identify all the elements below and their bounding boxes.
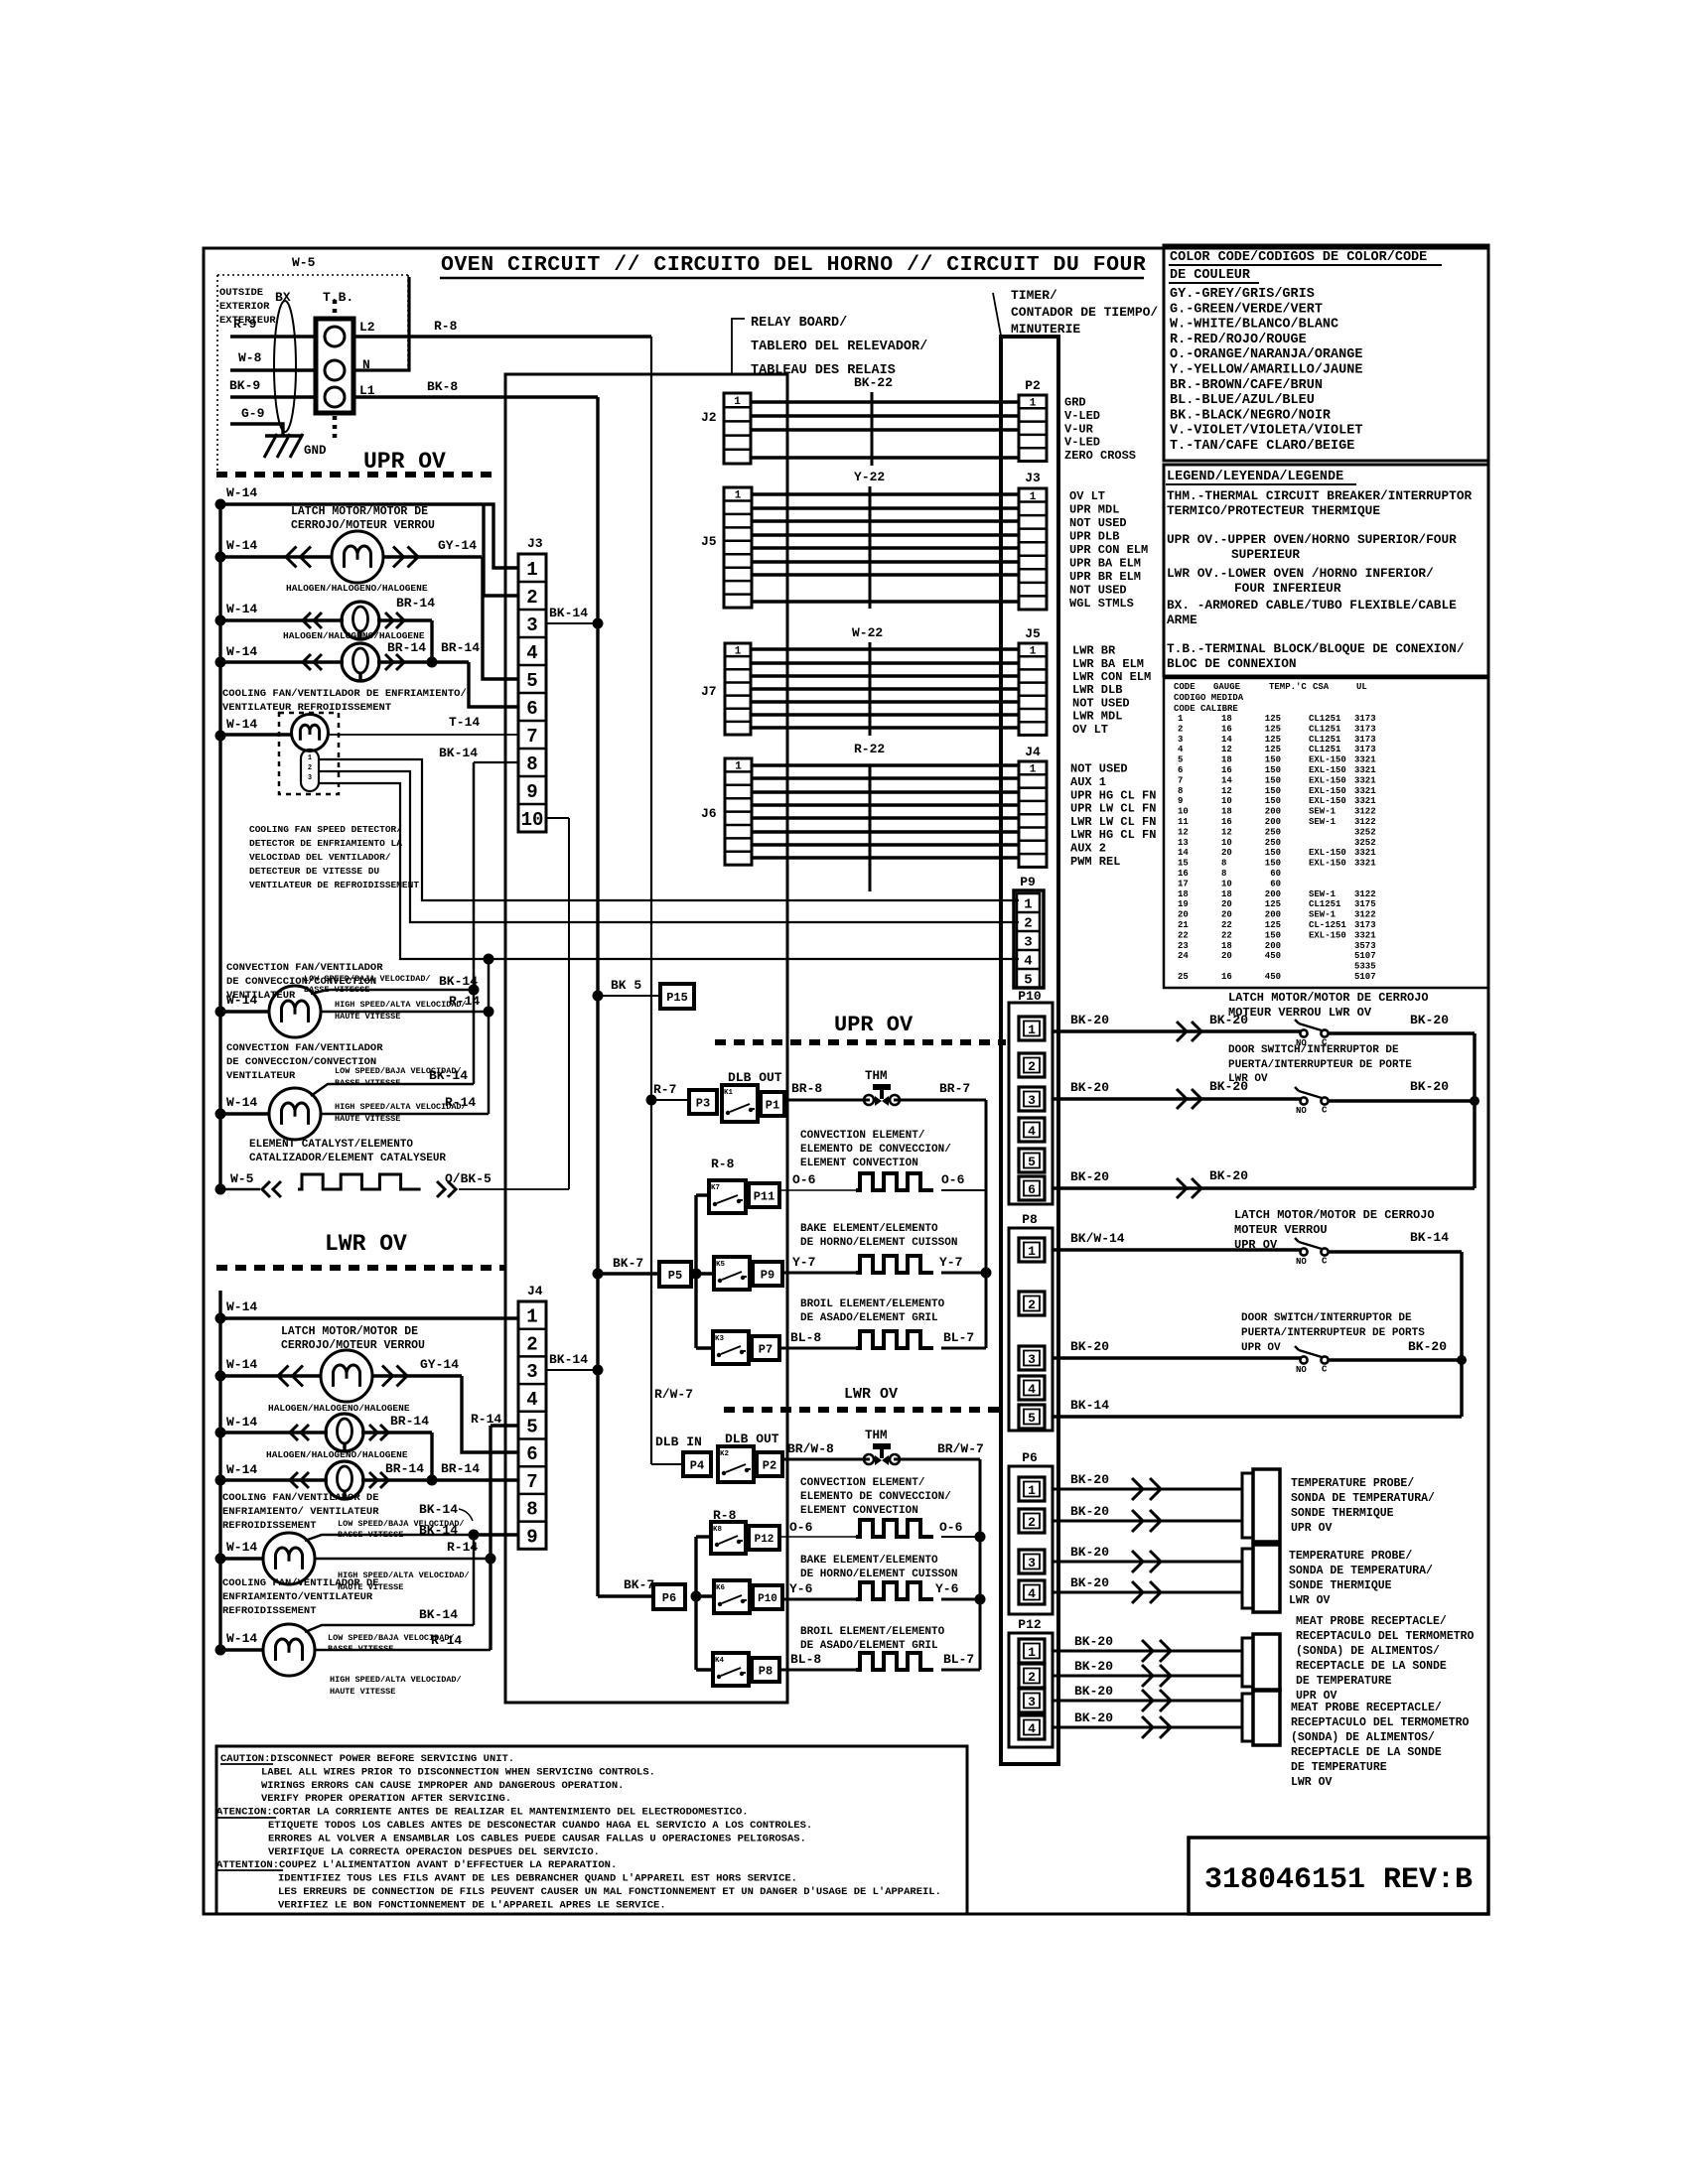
- connector P6 relay: [653, 1584, 685, 1609]
- connector P7: [752, 1336, 779, 1360]
- svg-text:R-7: R-7: [653, 1082, 676, 1097]
- svg-text:RECEPTACULO DEL TERMOMETRO: RECEPTACULO DEL TERMOMETRO: [1291, 1716, 1470, 1729]
- svg-text:CL1251: CL1251: [1309, 899, 1341, 909]
- svg-text:2: 2: [526, 1333, 537, 1355]
- svg-text:8: 8: [1221, 869, 1226, 879]
- svg-text:9: 9: [526, 781, 537, 803]
- svg-text:BK-14: BK-14: [1410, 1230, 1449, 1245]
- svg-text:BL-7: BL-7: [943, 1330, 974, 1345]
- svg-text:UL: UL: [1356, 682, 1367, 692]
- svg-text:R/W-7: R/W-7: [654, 1387, 693, 1402]
- svg-text:18: 18: [1221, 889, 1232, 899]
- svg-text:3321: 3321: [1354, 848, 1376, 858]
- connector P4: [683, 1452, 711, 1476]
- halogen lamp LWR 1: [326, 1414, 363, 1451]
- svg-text:W-14: W-14: [226, 1631, 257, 1646]
- svg-text:CODE: CODE: [1174, 682, 1196, 692]
- svg-text:O/BK-5: O/BK-5: [445, 1171, 492, 1186]
- svg-text:Y-22: Y-22: [854, 470, 885, 484]
- svg-text:VERIFIEZ LE BON FONCTIONNEMENT: VERIFIEZ LE BON FONCTIONNEMENT DE L'APPA…: [278, 1899, 666, 1911]
- caution box: [216, 1746, 967, 1914]
- svg-text:NOT USED: NOT USED: [1069, 584, 1127, 598]
- svg-text:SEW-1: SEW-1: [1309, 910, 1336, 920]
- svg-text:BROIL ELEMENT/ELEMENTO: BROIL ELEMENT/ELEMENTO: [800, 1298, 945, 1310]
- node relay feed vertical LWR x=701: [694, 1537, 697, 1670]
- svg-text:C: C: [1322, 1106, 1328, 1116]
- svg-text:4: 4: [1028, 1721, 1036, 1736]
- svg-text:CL1251: CL1251: [1309, 735, 1341, 745]
- svg-text:O-6: O-6: [789, 1520, 813, 1535]
- svg-text:GAUGE: GAUGE: [1213, 682, 1241, 692]
- svg-text:4: 4: [1028, 1586, 1036, 1601]
- svg-text:RECEPTACULO DEL TERMOMETRO: RECEPTACULO DEL TERMOMETRO: [1296, 1630, 1475, 1643]
- svg-text:BK-20: BK-20: [1209, 1013, 1248, 1027]
- svg-text:BR/W-8: BR/W-8: [787, 1441, 834, 1456]
- svg-text:12: 12: [1221, 786, 1232, 796]
- cooling fan motor LWR 1: [263, 1533, 315, 1584]
- svg-text:W-5: W-5: [292, 255, 316, 270]
- svg-text:12: 12: [1221, 827, 1232, 837]
- svg-text:R-14: R-14: [449, 994, 480, 1009]
- svg-text:8: 8: [526, 753, 537, 775]
- door switch LWR NO C: [1300, 1097, 1307, 1104]
- svg-text:P10: P10: [758, 1593, 777, 1605]
- svg-text:150: 150: [1265, 775, 1281, 785]
- svg-text:4: 4: [1028, 1124, 1036, 1139]
- svg-text:VELOCIDAD DEL VENTILADOR/: VELOCIDAD DEL VENTILADOR/: [249, 852, 391, 863]
- svg-text:RECEPTACLE DE LA SONDE: RECEPTACLE DE LA SONDE: [1296, 1660, 1447, 1673]
- broil element LWR: [856, 1653, 933, 1670]
- svg-text:K1: K1: [724, 1089, 734, 1097]
- svg-text:LABEL ALL WIRES PRIOR TO DISCO: LABEL ALL WIRES PRIOR TO DISCONNECTION W…: [261, 1766, 655, 1778]
- svg-text:NOT USED: NOT USED: [1069, 516, 1127, 530]
- bundle tick BK-22: [871, 392, 874, 466]
- fan speed detector capsule: [301, 750, 319, 791]
- svg-text:1: 1: [1028, 1483, 1036, 1498]
- svg-text:200: 200: [1265, 941, 1281, 951]
- svg-text:GY-14: GY-14: [420, 1357, 459, 1372]
- svg-text:3321: 3321: [1354, 765, 1376, 775]
- svg-text:BK-20: BK-20: [1070, 1504, 1109, 1519]
- svg-text:3321: 3321: [1354, 930, 1376, 940]
- svg-text:6: 6: [526, 1443, 537, 1465]
- svg-text:SONDE THERMIQUE: SONDE THERMIQUE: [1291, 1507, 1394, 1520]
- svg-text:250: 250: [1265, 827, 1281, 837]
- svg-text:9: 9: [526, 1526, 537, 1548]
- svg-text:UPR OV: UPR OV: [1291, 1522, 1333, 1535]
- svg-text:BK-14: BK-14: [549, 606, 588, 620]
- svg-text:Y-7: Y-7: [792, 1255, 815, 1270]
- svg-text:1: 1: [1030, 398, 1037, 410]
- svg-text:4: 4: [1178, 745, 1184, 754]
- svg-text:EXL-150: EXL-150: [1309, 859, 1346, 869]
- latch motor switch LWR NO C: [1300, 1029, 1307, 1036]
- svg-text:K4: K4: [715, 1657, 725, 1665]
- svg-text:LES ERREURS DE CONNECTION DE F: LES ERREURS DE CONNECTION DE FILS PEUVEN…: [278, 1886, 941, 1898]
- svg-text:BR-14: BR-14: [441, 640, 480, 655]
- svg-text:1: 1: [735, 646, 742, 658]
- svg-text:W-5: W-5: [230, 1171, 254, 1186]
- svg-text:23: 23: [1178, 941, 1189, 951]
- svg-text:SONDE THERMIQUE: SONDE THERMIQUE: [1289, 1579, 1392, 1592]
- svg-text:COOLING FAN/VENTILADOR DE: COOLING FAN/VENTILADOR DE: [222, 1577, 379, 1589]
- svg-text:T.B.: T.B.: [323, 290, 353, 305]
- svg-text:BK-9: BK-9: [229, 378, 260, 393]
- svg-text:HAUTE VITESSE: HAUTE VITESSE: [335, 1114, 400, 1124]
- svg-text:T-14: T-14: [449, 715, 480, 730]
- svg-text:W-14: W-14: [226, 1357, 257, 1372]
- svg-text:BR-8: BR-8: [791, 1081, 822, 1096]
- svg-text:EXL-150: EXL-150: [1309, 786, 1346, 796]
- svg-text:BK-20: BK-20: [1410, 1013, 1449, 1027]
- svg-text:CL1251: CL1251: [1309, 745, 1341, 754]
- svg-text:18: 18: [1221, 807, 1232, 817]
- relay K4: [713, 1653, 749, 1686]
- svg-text:BK-20: BK-20: [1074, 1710, 1113, 1725]
- svg-text:1: 1: [308, 754, 312, 762]
- svg-text:BK-14: BK-14: [429, 1068, 468, 1083]
- svg-text:3: 3: [526, 614, 537, 636]
- svg-text:UPR DLB: UPR DLB: [1069, 529, 1119, 543]
- svg-text:V-LED: V-LED: [1064, 409, 1100, 423]
- svg-text:P2: P2: [763, 1458, 776, 1472]
- svg-text:16: 16: [1221, 765, 1232, 775]
- svg-text:20: 20: [1221, 899, 1232, 909]
- svg-text:5: 5: [1024, 973, 1032, 989]
- connector P10 relay: [753, 1585, 782, 1609]
- svg-text:BASSE VITESSE: BASSE VITESSE: [338, 1530, 403, 1540]
- door switch UPR NO C: [1300, 1356, 1307, 1363]
- svg-text:UPR BR ELM: UPR BR ELM: [1069, 570, 1141, 584]
- svg-text:K2: K2: [720, 1450, 730, 1458]
- svg-text:DE COULEUR: DE COULEUR: [1170, 268, 1251, 283]
- node vertical R-14 x=492: [488, 959, 491, 1114]
- svg-text:1: 1: [1030, 646, 1037, 658]
- svg-text:BK-20: BK-20: [1070, 1575, 1109, 1590]
- svg-text:WIRINGS ERRORS CAN CAUSE IMPRO: WIRINGS ERRORS CAN CAUSE IMPROPER AND DA…: [261, 1780, 624, 1792]
- svg-text:DOOR SWITCH/INTERRUPTOR DE: DOOR SWITCH/INTERRUPTOR DE: [1228, 1044, 1399, 1056]
- svg-text:EXL-150: EXL-150: [1309, 796, 1346, 806]
- svg-text:GRD: GRD: [1064, 396, 1086, 410]
- svg-text:COOLING FAN SPEED DETECTOR/: COOLING FAN SPEED DETECTOR/: [249, 824, 402, 835]
- svg-text:BX. -ARMORED CABLE/TUBO FLEXIB: BX. -ARMORED CABLE/TUBO FLEXIBLE/CABLE: [1167, 598, 1457, 613]
- svg-text:RECEPTACLE DE LA SONDE: RECEPTACLE DE LA SONDE: [1291, 1746, 1442, 1759]
- wire fan detector pin1 to P9-1: [319, 759, 1019, 900]
- svg-text:CSA: CSA: [1313, 682, 1330, 692]
- svg-text:3175: 3175: [1354, 899, 1376, 909]
- svg-text:GY.-GREY/GRIS/GRIS: GY.-GREY/GRIS/GRIS: [1170, 287, 1315, 302]
- svg-text:LWR OV: LWR OV: [1291, 1776, 1333, 1789]
- svg-text:125: 125: [1265, 899, 1281, 909]
- svg-text:COOLING FAN/VENTILADOR DE ENFR: COOLING FAN/VENTILADOR DE ENFRIAMIENTO/: [222, 688, 467, 700]
- svg-text:C: C: [1322, 1365, 1328, 1375]
- svg-text:LWR OV: LWR OV: [844, 1386, 898, 1403]
- svg-text:W-14: W-14: [226, 538, 257, 553]
- svg-text:22: 22: [1178, 930, 1189, 940]
- svg-text:2: 2: [1028, 1670, 1036, 1685]
- svg-text:HALOGEN/HALOGENO/HALOGENE: HALOGEN/HALOGENO/HALOGENE: [286, 583, 428, 594]
- svg-text:DE TEMPERATURE: DE TEMPERATURE: [1296, 1675, 1392, 1688]
- svg-text:T.B.-TERMINAL BLOCK/BLOQUE DE: T.B.-TERMINAL BLOCK/BLOQUE DE CONEXION/: [1167, 641, 1465, 656]
- connector P15: [660, 984, 694, 1009]
- svg-text:3122: 3122: [1354, 910, 1376, 920]
- svg-text:BAKE ELEMENT/ELEMENTO: BAKE ELEMENT/ELEMENTO: [800, 1223, 938, 1235]
- svg-text:200: 200: [1265, 817, 1281, 827]
- svg-text:LOW SPEED/BAJA VELOCIDAD/: LOW SPEED/BAJA VELOCIDAD/: [338, 1519, 465, 1529]
- svg-text:18: 18: [1221, 714, 1232, 724]
- halogen lamp LWR 2: [326, 1461, 363, 1499]
- svg-text:BK-20: BK-20: [1209, 1168, 1248, 1183]
- connector P1: [761, 1092, 784, 1116]
- svg-text:TEMPERATURE PROBE/: TEMPERATURE PROBE/: [1289, 1550, 1412, 1563]
- svg-text:BK-20: BK-20: [1410, 1079, 1449, 1094]
- svg-text:13: 13: [1178, 838, 1189, 848]
- svg-text:14: 14: [1221, 735, 1232, 745]
- svg-text:O-6: O-6: [941, 1172, 965, 1187]
- svg-text:CONVECTION ELEMENT/: CONVECTION ELEMENT/: [800, 1130, 925, 1142]
- svg-text:BK-20: BK-20: [1209, 1079, 1248, 1094]
- svg-text:BK/W-14: BK/W-14: [1070, 1231, 1125, 1246]
- latch motor UPR: [332, 531, 383, 583]
- svg-text:ELEMENT CONVECTION: ELEMENT CONVECTION: [800, 1158, 918, 1169]
- svg-text:V-LED: V-LED: [1064, 436, 1100, 450]
- svg-text:LATCH MOTOR/MOTOR DE CERROJO: LATCH MOTOR/MOTOR DE CERROJO: [1234, 1208, 1435, 1222]
- svg-text:L2: L2: [359, 320, 375, 335]
- svg-text:P8: P8: [1022, 1212, 1038, 1227]
- svg-text:UPR OV: UPR OV: [834, 1013, 914, 1037]
- svg-text:BLOC DE CONNEXION: BLOC DE CONNEXION: [1167, 656, 1297, 671]
- svg-text:BK-14: BK-14: [549, 1352, 588, 1367]
- svg-text:ERRORES AL VOLVER A ENSAMBLAR: ERRORES AL VOLVER A ENSAMBLAR LOS CABLES…: [268, 1833, 806, 1844]
- svg-text:R-8: R-8: [434, 319, 458, 334]
- svg-text:TEMP.'C: TEMP.'C: [1269, 682, 1307, 692]
- element catalyst heating element: [298, 1174, 421, 1189]
- svg-text:O-6: O-6: [939, 1520, 963, 1535]
- svg-text:VENTILATEUR DE REFROIDISSEMENT: VENTILATEUR DE REFROIDISSEMENT: [249, 880, 419, 890]
- svg-text:BK-20: BK-20: [1070, 1013, 1109, 1027]
- svg-text:BR-14: BR-14: [390, 1414, 429, 1429]
- svg-text:BR-7: BR-7: [939, 1081, 970, 1096]
- svg-text:J4: J4: [1025, 745, 1041, 759]
- svg-text:LWR HG CL FN: LWR HG CL FN: [1070, 828, 1156, 842]
- svg-text:ENFRIAMIENTO/VENTILATEUR: ENFRIAMIENTO/VENTILATEUR: [222, 1591, 373, 1603]
- svg-text:5: 5: [1178, 755, 1183, 765]
- latch motor switch UPR NO C: [1300, 1248, 1307, 1255]
- svg-text:OVEN CIRCUIT // CIRCUITO DEL H: OVEN CIRCUIT // CIRCUITO DEL HORNO // CI…: [441, 253, 1146, 277]
- armored cable BX: [274, 301, 296, 432]
- svg-text:OV LT: OV LT: [1072, 723, 1108, 737]
- svg-text:20: 20: [1221, 848, 1232, 858]
- svg-text:NO: NO: [1296, 1365, 1307, 1375]
- ground GND symbol: [265, 434, 302, 438]
- svg-text:3: 3: [1028, 1695, 1036, 1709]
- svg-text:BK-20: BK-20: [1070, 1472, 1109, 1487]
- timer label: [993, 293, 1001, 336]
- svg-text:BR-14: BR-14: [441, 1461, 480, 1476]
- connector P2 relay: [757, 1452, 782, 1476]
- svg-text:P5: P5: [668, 1269, 682, 1283]
- svg-text:BROIL ELEMENT/ELEMENTO: BROIL ELEMENT/ELEMENTO: [800, 1626, 945, 1638]
- bake element UPR: [856, 1256, 933, 1273]
- bundle tick R-22: [869, 764, 872, 891]
- svg-text:7: 7: [1178, 775, 1183, 785]
- svg-text:AUX 1: AUX 1: [1070, 775, 1106, 789]
- svg-text:LWR CON ELM: LWR CON ELM: [1072, 670, 1151, 684]
- svg-text:LWR OV.-LOWER OVEN /HORNO INFE: LWR OV.-LOWER OVEN /HORNO INFERIOR/: [1167, 566, 1434, 581]
- svg-text:BR.-BROWN/CAFE/BRUN: BR.-BROWN/CAFE/BRUN: [1170, 378, 1323, 393]
- svg-text:T.-TAN/CAFE CLARO/BEIGE: T.-TAN/CAFE CLARO/BEIGE: [1170, 439, 1354, 454]
- svg-text:150: 150: [1265, 765, 1281, 775]
- convection fan motor UPR 2: [269, 1088, 321, 1140]
- svg-text:(SONDA) DE ALIMENTOS/: (SONDA) DE ALIMENTOS/: [1296, 1645, 1440, 1658]
- svg-text:3: 3: [1028, 1556, 1036, 1570]
- svg-text:R-14: R-14: [431, 1633, 462, 1648]
- svg-text:200: 200: [1265, 889, 1281, 899]
- svg-text:2: 2: [308, 764, 312, 772]
- svg-text:R.-RED/ROJO/ROUGE: R.-RED/ROJO/ROUGE: [1170, 333, 1307, 347]
- relay board label: [732, 319, 745, 373]
- svg-text:NOT USED: NOT USED: [1072, 696, 1130, 710]
- svg-text:W-14: W-14: [226, 644, 257, 659]
- convection element UPR: [856, 1173, 933, 1190]
- svg-text:O.-ORANGE/NARANJA/ORANGE: O.-ORANGE/NARANJA/ORANGE: [1170, 347, 1362, 362]
- svg-text:EXTERIOR: EXTERIOR: [219, 301, 270, 313]
- svg-text:9: 9: [1178, 796, 1183, 806]
- LWR OV middle dashed line: [724, 1407, 1006, 1413]
- svg-text:4: 4: [526, 642, 537, 664]
- svg-text:J7: J7: [701, 684, 717, 699]
- svg-text:CODE CALIBRE: CODE CALIBRE: [1174, 704, 1238, 714]
- svg-text:R-22: R-22: [854, 742, 885, 756]
- wire W-14 bus LWR: [218, 1291, 221, 1650]
- svg-text:BK-7: BK-7: [624, 1577, 654, 1592]
- svg-text:UPR OV: UPR OV: [363, 449, 446, 475]
- svg-text:BK-14: BK-14: [419, 1502, 458, 1517]
- svg-text:24: 24: [1178, 951, 1189, 961]
- wire GY-14 latch to J4-6: [372, 1374, 462, 1377]
- svg-text:J2: J2: [701, 410, 717, 425]
- svg-text:ZERO CROSS: ZERO CROSS: [1064, 449, 1136, 463]
- svg-text:200: 200: [1265, 910, 1281, 920]
- svg-text:BR/W-7: BR/W-7: [937, 1441, 984, 1456]
- svg-text:J5: J5: [701, 534, 717, 549]
- svg-text:HALOGEN/HALOGENO/HALOGENE: HALOGEN/HALOGENO/HALOGENE: [268, 1403, 410, 1414]
- svg-text:BL-8: BL-8: [790, 1330, 821, 1345]
- svg-text:10: 10: [1178, 807, 1189, 817]
- svg-text:3173: 3173: [1354, 745, 1376, 754]
- svg-text:BL.-BLUE/AZUL/BLEU: BL.-BLUE/AZUL/BLEU: [1170, 393, 1315, 408]
- svg-text:K5: K5: [716, 1261, 726, 1269]
- svg-text:3321: 3321: [1354, 796, 1376, 806]
- svg-text:DETECTOR DE ENFRIAMIENTO LA: DETECTOR DE ENFRIAMIENTO LA: [249, 838, 402, 849]
- svg-text:V-UR: V-UR: [1064, 422, 1094, 436]
- svg-text:1: 1: [1028, 1023, 1036, 1037]
- bake element LWR: [856, 1582, 933, 1599]
- svg-text:R-14: R-14: [445, 1095, 476, 1110]
- svg-text:2: 2: [1028, 1515, 1036, 1530]
- svg-text:5: 5: [526, 670, 537, 692]
- svg-text:3122: 3122: [1354, 817, 1376, 827]
- svg-text:3: 3: [1024, 935, 1032, 951]
- svg-text:SEW-1: SEW-1: [1309, 807, 1336, 817]
- legend box: [1164, 465, 1488, 676]
- svg-text:THM: THM: [865, 1069, 888, 1083]
- svg-text:MOTEUR VERROU: MOTEUR VERROU: [1234, 1223, 1328, 1237]
- wire gauge table box: [1164, 678, 1488, 988]
- svg-text:BK-7: BK-7: [613, 1256, 643, 1271]
- svg-text:BK-20: BK-20: [1070, 1339, 1109, 1354]
- node vertical BK-14 x=477 LWR: [473, 1535, 476, 1625]
- UPR OV dashed boundary: [216, 472, 498, 478]
- svg-text:3321: 3321: [1354, 775, 1376, 785]
- broil element UPR: [856, 1331, 933, 1348]
- wire BK-14 cooling fan1 low to J4-9: [305, 1535, 474, 1541]
- svg-text:CONTADOR DE TIEMPO/: CONTADOR DE TIEMPO/: [1011, 305, 1158, 320]
- svg-text:G.-GREEN/VERDE/VERT: G.-GREEN/VERDE/VERT: [1170, 302, 1323, 317]
- svg-text:P6: P6: [1022, 1450, 1038, 1465]
- svg-text:ENFRIAMIENTO/ VENTILATEUR: ENFRIAMIENTO/ VENTILATEUR: [222, 1506, 379, 1518]
- svg-text:FOUR INFERIEUR: FOUR INFERIEUR: [1234, 581, 1341, 596]
- svg-text:W-14: W-14: [226, 1415, 257, 1430]
- svg-text:REFROIDISSEMENT: REFROIDISSEMENT: [222, 1520, 317, 1532]
- svg-text:5107: 5107: [1354, 951, 1376, 961]
- svg-text:THM: THM: [865, 1429, 888, 1442]
- svg-text:ELEMENT CONVECTION: ELEMENT CONVECTION: [800, 1505, 918, 1517]
- svg-text:R-8: R-8: [711, 1157, 735, 1171]
- svg-text:BK-8: BK-8: [427, 379, 458, 394]
- svg-text:UPR OV: UPR OV: [1241, 1342, 1281, 1354]
- svg-text:10: 10: [1221, 796, 1232, 806]
- svg-text:K8: K8: [713, 1526, 723, 1534]
- svg-text:SONDA DE TEMPERATURA/: SONDA DE TEMPERATURA/: [1289, 1565, 1433, 1577]
- svg-text:150: 150: [1265, 755, 1281, 765]
- svg-text:SUPERIEUR: SUPERIEUR: [1231, 547, 1300, 562]
- node vertical wire R-8/R-7/R-W-7 bus x=656: [650, 337, 652, 1464]
- svg-text:DE ASADO/ELEMENT GRIL: DE ASADO/ELEMENT GRIL: [800, 1640, 938, 1652]
- svg-text:UPR CON ELM: UPR CON ELM: [1069, 543, 1148, 557]
- svg-text:UPR LW CL FN: UPR LW CL FN: [1070, 802, 1156, 816]
- svg-text:VENTILATEUR REFROIDISSEMENT: VENTILATEUR REFROIDISSEMENT: [222, 702, 391, 714]
- svg-text:CODIGO MEDIDA: CODIGO MEDIDA: [1174, 693, 1244, 703]
- svg-text:K3: K3: [715, 1335, 725, 1343]
- svg-text:3: 3: [526, 1361, 537, 1383]
- svg-text:12: 12: [1178, 827, 1189, 837]
- svg-text:BK-20: BK-20: [1074, 1684, 1113, 1699]
- svg-text:14: 14: [1221, 775, 1232, 785]
- svg-text:IDENTIFIEZ TOUS LES FILS AVANT: IDENTIFIEZ TOUS LES FILS AVANT DE LES DE…: [278, 1873, 797, 1885]
- svg-text:P11: P11: [754, 1189, 775, 1203]
- svg-text:125: 125: [1265, 714, 1281, 724]
- svg-text:125: 125: [1265, 920, 1281, 930]
- svg-text:BR-14: BR-14: [387, 640, 426, 655]
- svg-text:3573: 3573: [1354, 941, 1376, 951]
- svg-text:DOOR SWITCH/INTERRUPTOR DE: DOOR SWITCH/INTERRUPTOR DE: [1241, 1312, 1412, 1324]
- svg-text:16: 16: [1178, 869, 1189, 879]
- svg-text:P7: P7: [759, 1342, 773, 1356]
- svg-text:2: 2: [1028, 1059, 1036, 1074]
- node vertical wire BK-8/BK-7 bus x=602: [596, 397, 599, 1596]
- svg-text:P8: P8: [759, 1664, 773, 1678]
- svg-text:10: 10: [521, 809, 544, 831]
- svg-text:UPR OV.-UPPER OVEN/HORNO SUPER: UPR OV.-UPPER OVEN/HORNO SUPERIOR/FOUR: [1167, 532, 1457, 547]
- svg-text:TERMICO/PROTECTEUR THERMIQUE: TERMICO/PROTECTEUR THERMIQUE: [1167, 503, 1380, 518]
- svg-text:REFROIDISSEMENT: REFROIDISSEMENT: [222, 1605, 317, 1617]
- svg-text:DLB IN: DLB IN: [655, 1434, 702, 1449]
- svg-text:LWR MDL: LWR MDL: [1072, 710, 1122, 724]
- svg-text:3252: 3252: [1354, 827, 1376, 837]
- svg-text:P9: P9: [1020, 875, 1036, 889]
- relay K8: [711, 1522, 746, 1554]
